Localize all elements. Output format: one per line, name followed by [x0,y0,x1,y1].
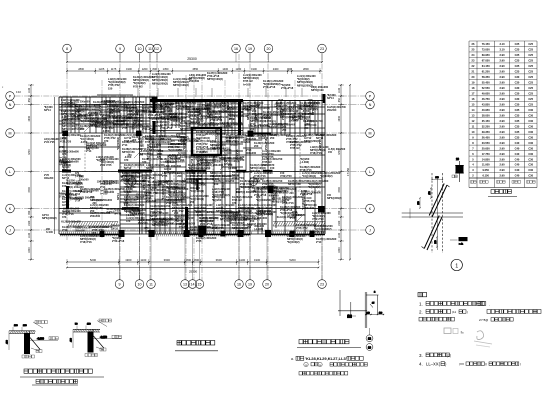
svg-text:F.DJ: F.DJ [16,91,22,94]
svg-text:4*22;2*20: 4*22;2*20 [319,139,322,150]
svg-text:14.850: 14.850 [482,157,490,161]
bottom wall hatch [60,232,324,237]
svg-text:N8*8@200(2): N8*8@200(2) [152,81,168,85]
svg-text:32.250: 32.250 [482,124,490,128]
svg-text:17.750: 17.750 [482,152,490,156]
svg-text:17450: 17450 [346,167,350,176]
svg-text:C40: C40 [515,168,520,172]
svg-text:9: 9 [119,47,121,51]
svg-text:2.90: 2.90 [499,108,505,112]
svg-text:2.90: 2.90 [499,152,505,156]
svg-text:2*20+2*18: 2*20+2*18 [263,85,276,89]
svg-text:2*14: 2*14 [288,106,294,109]
svg-text:N6*8@150: N6*8@150 [207,103,210,115]
svg-text:2*25: 2*25 [162,174,168,178]
svg-text:N: N [9,103,12,107]
svg-text:C25: C25 [528,86,533,90]
left dimension line [28,84,34,260]
svg-text:h=100: h=100 [212,178,220,181]
mid caption [297,340,361,348]
svg-text:3600: 3600 [216,258,223,262]
svg-text:(2): (2) [447,354,451,358]
axis bubbles left [6,92,15,235]
svg-text:2*25: 2*25 [110,100,116,103]
svg-text:G4*12: G4*12 [255,113,258,120]
svg-text:9: 9 [119,283,121,287]
svg-text:2*20+2*18: 2*20+2*18 [281,86,294,90]
svg-text:2*25: 2*25 [122,126,128,130]
svg-text:2*20+2*18: 2*20+2*18 [142,127,155,131]
svg-text:C40: C40 [515,152,520,156]
svg-text:2*14: 2*14 [316,240,322,244]
svg-text:C30: C30 [528,152,533,156]
svg-text:23.550: 23.550 [482,141,490,145]
svg-text:2.90: 2.90 [499,141,505,145]
svg-text:2*25: 2*25 [196,239,202,243]
svg-text:KL30(1) 250x500: KL30(1) 250x500 [201,161,221,164]
svg-text:370: 370 [252,190,257,193]
svg-text:16: 16 [234,47,238,51]
svg-text:200: 200 [132,139,137,142]
svg-text:370: 370 [86,148,91,151]
svg-text:150: 150 [108,86,113,90]
svg-text:J: J [9,229,11,233]
svg-text:10: 10 [138,283,142,287]
svg-text:850: 850 [338,98,341,103]
svg-text:C25: C25 [515,70,520,74]
left edge labels [2,87,22,94]
svg-text:N8*8@200(2): N8*8@200(2) [312,100,315,115]
svg-text:1100: 1100 [239,258,245,262]
svg-text:(-1.090): (-1.090) [59,162,68,165]
svg-text:800: 800 [153,67,158,71]
slab dashed lines [59,114,322,234]
caption detail AB line2 [32,380,78,386]
svg-text:G4*10: G4*10 [111,227,119,230]
svg-text:1900: 1900 [125,258,132,262]
notes block [418,293,541,367]
svg-text:C25: C25 [528,102,533,106]
svg-text:*8@200: *8@200 [96,159,106,162]
svg-text:1350: 1350 [163,67,169,71]
svg-text:N8*8@200(2): N8*8@200(2) [327,197,342,200]
svg-text:250: 250 [282,129,287,132]
svg-text:3600: 3600 [164,258,171,262]
svg-text:1900: 1900 [251,67,257,71]
svg-text:*10@100(4): *10@100(4) [183,137,186,150]
svg-text:C30: C30 [515,75,520,79]
svg-text:C25: C25 [528,42,533,46]
svg-text:C35: C35 [515,108,520,112]
svg-text:2*25: 2*25 [171,116,177,119]
svg-text:2*25: 2*25 [214,107,220,110]
svg-text:h=100: h=100 [179,226,187,229]
svg-text:250: 250 [127,154,132,157]
svg-text:C30: C30 [528,141,533,145]
svg-text:2*14: 2*14 [160,129,166,133]
storey level table [469,41,537,188]
svg-text:1900: 1900 [254,258,261,262]
svg-text:200: 200 [250,128,255,131]
svg-text:N8*8@100(2): N8*8@100(2) [235,217,250,220]
svg-text:C30: C30 [528,168,533,172]
svg-text:C30: C30 [515,102,520,106]
svg-text:900: 900 [28,210,31,215]
svg-text:200: 200 [92,202,97,205]
svg-text:2.90: 2.90 [499,130,505,134]
svg-text:C30: C30 [528,124,533,128]
svg-text:N4*14: N4*14 [137,108,140,115]
svg-text:40.950: 40.950 [482,108,490,112]
svg-text:2*25: 2*25 [59,146,65,149]
mid notes lines [291,356,367,375]
svg-text:250x500: 250x500 [75,229,85,232]
svg-text:250: 250 [225,139,230,142]
svg-text:KL16(1) 250x600: KL16(1) 250x600 [277,216,297,219]
svg-text:11.950: 11.950 [482,163,490,167]
svg-text:250: 250 [206,166,211,170]
svg-text:2.90: 2.90 [499,113,505,117]
svg-text:C30: C30 [528,163,533,167]
svg-text:KL31(2) 300x600: KL31(2) 300x600 [59,151,79,154]
svg-text:(-1.090): (-1.090) [300,160,309,164]
svg-text:2.90: 2.90 [499,124,505,128]
svg-text:N8*8@100: N8*8@100 [103,180,116,183]
grid axis lines vertical [67,54,322,280]
detail beam top bars at wall [338,290,384,350]
svg-text:250: 250 [247,226,252,229]
svg-text:58.350: 58.350 [482,75,490,79]
svg-text:2800: 2800 [303,67,309,71]
svg-text:250x500: 250x500 [79,178,89,181]
svg-text:(-1.090): (-1.090) [174,190,183,193]
svg-text:'KL28,KL29,KL27,LL3': 'KL28,KL29,KL27,LL3' [305,356,347,361]
svg-text:400x200: 400x200 [68,105,78,108]
svg-text:C25: C25 [515,59,520,63]
svg-text:M: M [9,132,12,136]
svg-text:8: 8 [66,47,68,51]
svg-text:23: 23 [320,283,324,287]
svg-text:C25: C25 [528,64,533,68]
svg-text:): ) [467,310,468,314]
svg-text:*10@100(4): *10@100(4) [190,189,204,193]
svg-text:4*22;2*20: 4*22;2*20 [280,174,292,178]
svg-text:*8@100/200(2): *8@100/200(2) [162,184,165,200]
svg-text:2*20+2*18: 2*20+2*18 [191,158,194,170]
svg-text:C40: C40 [515,141,520,145]
bottom dimension line [66,258,319,274]
svg-text:3700: 3700 [28,149,31,155]
svg-text:800: 800 [194,258,199,262]
svg-text:1100: 1100 [140,258,146,262]
svg-text:150: 150 [328,151,333,154]
svg-text:12: 12 [155,47,159,51]
svg-text:*8@100(2): *8@100(2) [320,174,333,178]
svg-text:76.150: 76.150 [482,42,490,46]
svg-text:16: 16 [237,283,241,287]
svg-text:*8@100(2): *8@100(2) [287,240,300,244]
svg-text:h=100: h=100 [243,82,251,86]
svg-text:250x500: 250x500 [304,206,315,210]
svg-text:2400: 2400 [273,67,279,71]
svg-text:2.90: 2.90 [499,119,505,123]
svg-text::..: :.. [461,330,464,334]
svg-text:10: 10 [138,47,142,51]
svg-text:4.: 4. [419,362,423,367]
svg-text:200: 200 [92,123,97,126]
svg-text:61.250: 61.250 [482,70,490,74]
svg-text:2.90: 2.90 [499,146,505,150]
svg-text:(-1.090): (-1.090) [176,198,185,201]
svg-text:400x200: 400x200 [134,120,144,123]
svg-text:29.350: 29.350 [482,130,490,134]
svg-text:9.050: 9.050 [482,168,489,172]
beam lines vertical [62,94,322,234]
svg-text:-0.000: -0.000 [37,337,44,340]
svg-text:3700: 3700 [338,149,341,155]
svg-text:1100: 1100 [28,87,31,93]
svg-text:2*25;4*22: 2*25;4*22 [294,116,306,119]
svg-text:G4*12: G4*12 [137,193,140,200]
svg-text:*10@100(4): *10@100(4) [117,137,120,150]
svg-text:C30: C30 [515,86,520,90]
svg-text:2*20+2*18: 2*20+2*18 [282,108,285,120]
svg-text:2*14: 2*14 [197,163,203,166]
svg-text:C25: C25 [528,48,533,52]
svg-text:C25: C25 [528,70,533,74]
svg-text:4550: 4550 [192,67,198,71]
svg-text:(-1.090): (-1.090) [212,118,221,121]
svg-text:N4*14: N4*14 [292,113,295,120]
svg-text:C35: C35 [515,124,520,128]
svg-text:13: 13 [183,283,187,287]
svg-text:2*25;4*22: 2*25;4*22 [304,199,316,203]
detail A slab step [7,321,59,359]
svg-text:C30: C30 [528,135,533,139]
svg-text:400: 400 [288,67,293,71]
svg-text:C25: C25 [515,42,520,46]
svg-text:6.150: 6.150 [482,174,489,178]
svg-text:5200: 5200 [289,258,296,262]
svg-text:1900: 1900 [126,67,132,71]
svg-text:2*20+2*18: 2*20+2*18 [112,239,125,243]
svg-text:h=100: h=100 [77,109,85,112]
svg-text:N8*8@100(2): N8*8@100(2) [273,185,276,200]
svg-text:400x200: 400x200 [44,177,54,180]
svg-text:C30: C30 [515,92,520,96]
svg-text:C35: C35 [515,135,520,139]
svg-text:52.550: 52.550 [482,86,490,90]
svg-text:-0.050: -0.050 [144,230,152,233]
svg-text:2.90: 2.90 [499,92,505,96]
svg-text:*8@100/200(2): *8@100/200(2) [147,144,150,160]
svg-text:2*14: 2*14 [62,228,68,232]
svg-text:*10@100(4): *10@100(4) [302,174,316,178]
svg-text:150: 150 [143,194,148,197]
svg-text:200: 200 [146,169,151,173]
svg-text:N8*8@100: N8*8@100 [311,88,324,92]
svg-text:)(: )( [485,362,487,366]
svg-text:*8@200: *8@200 [212,198,222,202]
svg-text:19: 19 [248,283,252,287]
svg-text:*8@200: *8@200 [199,127,209,130]
svg-text:2.90: 2.90 [499,135,505,139]
svg-text:67.050: 67.050 [482,59,490,63]
svg-text:1400: 1400 [222,67,228,71]
svg-text:2*25;4*22: 2*25;4*22 [314,230,326,234]
svg-text:2.90: 2.90 [499,163,505,167]
svg-text:250: 250 [304,127,309,130]
hatch band left [68,222,118,227]
svg-text:11: 11 [148,47,152,51]
svg-text:250x500: 250x500 [171,143,181,146]
leader stems above plan [137,88,139,97]
svg-text:250x500: 250x500 [90,214,101,218]
svg-text:250x500: 250x500 [88,112,98,115]
svg-text:1200: 1200 [142,67,148,71]
svg-text:N8*8@100(2): N8*8@100(2) [256,213,271,216]
svg-text:C25: C25 [528,97,533,101]
svg-text:400x200: 400x200 [246,151,257,155]
svg-text:2.90: 2.90 [499,53,505,57]
svg-text:400x200: 400x200 [159,220,169,223]
svg-text:LL–XX(: LL–XX( [426,362,441,367]
svg-text:*8@200: *8@200 [250,105,260,108]
svg-text:3*18;3*16: 3*18;3*16 [64,109,67,120]
hole symbol 2 [248,176,259,187]
svg-text:C40: C40 [515,163,520,167]
svg-text:250: 250 [62,168,67,172]
svg-text:N8*8@100(2): N8*8@100(2) [180,127,196,131]
svg-text:3.: 3. [419,353,423,358]
svg-text:11: 11 [149,283,153,287]
svg-text:3*18;3*16: 3*18;3*16 [80,240,92,244]
svg-text:KL16(1) 250x600: KL16(1) 250x600 [89,226,109,229]
svg-text:C25: C25 [528,81,533,85]
svg-text:N6*8@150: N6*8@150 [143,178,146,190]
svg-text:C30: C30 [528,130,533,134]
svg-text:73.050: 73.050 [482,48,490,52]
svg-text:5200: 5200 [90,258,97,262]
svg-text:3.10: 3.10 [499,42,505,46]
svg-text:2*25;4*22: 2*25;4*22 [296,226,308,230]
svg-text:J: J [369,229,371,233]
svg-text:850: 850 [28,98,31,103]
svg-text:250x500: 250x500 [201,154,211,157]
svg-text:N8*8@200(2): N8*8@200(2) [199,100,202,115]
svg-text:h=100: h=100 [46,231,54,234]
svg-text:370: 370 [124,158,129,162]
svg-text:3700: 3700 [338,187,341,193]
svg-text:200: 200 [289,192,294,195]
plan outline [55,94,326,234]
svg-text:2.90: 2.90 [499,81,505,85]
svg-text:C25: C25 [515,64,520,68]
svg-text:400x200: 400x200 [84,118,94,121]
svg-text:G4*10: G4*10 [139,148,147,151]
svg-text:C30: C30 [528,119,533,123]
detail B slab step [71,319,123,357]
detail beam-wall anchorage [402,173,467,253]
detail bubble 1 [451,259,462,270]
svg-text:2900: 2900 [28,115,31,121]
svg-text:150: 150 [240,158,245,162]
svg-text:G4*12: G4*12 [102,118,110,121]
annotation labels [42,71,346,244]
svg-text:N8*8@100(2): N8*8@100(2) [199,220,214,223]
svg-text:150: 150 [128,116,133,119]
right dimension line [338,84,351,260]
svg-text:h=100: h=100 [196,119,204,122]
svg-text:N8*8@100(2): N8*8@100(2) [173,83,189,87]
svg-text:400x200: 400x200 [223,127,233,130]
svg-text:900: 900 [338,210,341,215]
svg-text:49.650: 49.650 [482,92,490,96]
top dimension line [66,57,323,74]
svg-text:3*18;3*16: 3*18;3*16 [187,209,190,220]
svg-text:800: 800 [186,258,191,262]
svg-text:(XX: (XX [459,362,464,366]
svg-text:*8@100/200(2): *8@100/200(2) [302,194,305,210]
svg-text:1100: 1100 [338,87,341,93]
shear wall segments [60,94,325,237]
svg-text:250x500: 250x500 [327,109,337,112]
svg-text:LL3(1) 200x400: LL3(1) 200x400 [107,120,126,123]
svg-text:KL16(1) 250x600: KL16(1) 250x600 [163,99,183,102]
svg-text:N4*14: N4*14 [124,166,132,170]
svg-text:N8*8@200(2): N8*8@200(2) [232,226,248,230]
svg-text:*10@100(4): *10@100(4) [229,107,232,120]
svg-text:55.450: 55.450 [482,81,490,85]
svg-text:150: 150 [166,190,171,193]
svg-text:N8*8@100: N8*8@100 [206,227,219,230]
svg-text:2*14: 2*14 [277,126,283,129]
svg-text:2.90: 2.90 [499,64,505,68]
svg-text:1200: 1200 [235,67,241,71]
svg-text:C35: C35 [515,119,520,123]
svg-text:C30: C30 [515,97,520,101]
svg-text:N8*8@200(2): N8*8@200(2) [42,217,57,220]
svg-text:2*20+2*18: 2*20+2*18 [169,103,172,115]
svg-text:2.90: 2.90 [499,168,505,172]
axis bubbles bottom [115,237,326,288]
svg-text:C25: C25 [515,48,520,52]
svg-text:25300: 25300 [189,269,198,273]
svg-text:*8@200: *8@200 [182,106,192,109]
svg-text:N4*14: N4*14 [114,212,122,215]
svg-text:200: 200 [254,144,259,148]
svg-text:3.10: 3.10 [499,48,505,52]
svg-text:2*14: 2*14 [75,199,81,202]
svg-text:370: 370 [157,156,162,159]
svg-text:6*25 4/2: 6*25 4/2 [290,146,300,150]
svg-text:6*25 4/2: 6*25 4/2 [133,84,143,88]
svg-text:C35: C35 [515,130,520,134]
svg-text:*10@100(4): *10@100(4) [222,182,225,195]
svg-text:3700: 3700 [28,187,31,193]
svg-text:2.90: 2.90 [499,75,505,79]
svg-text:h=100: h=100 [63,210,71,213]
svg-text:150: 150 [214,182,219,186]
svg-text:35.150: 35.150 [482,119,490,123]
svg-text:*10@100(4): *10@100(4) [215,127,218,140]
svg-text:2*22 4*25: 2*22 4*25 [44,141,55,144]
svg-text:*10@100(4): *10@100(4) [193,183,207,186]
svg-text:C25: C25 [528,53,533,57]
leader diagonals [84,108,304,224]
svg-text:N8*8@100(2): N8*8@100(2) [207,77,223,81]
svg-text:C30: C30 [528,174,533,178]
